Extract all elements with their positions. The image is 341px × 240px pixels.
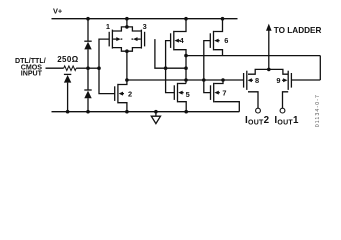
junction bus at Q7 drain	[221, 78, 225, 82]
wire drain lead of Q6	[214, 19, 222, 32]
wire drain lead of Q7	[214, 80, 223, 84]
diode D3 cathode bar	[64, 73, 71, 75]
wire source lead of Q8	[248, 92, 258, 108]
transistor Q8	[244, 71, 253, 90]
wire drain lead of Q4	[174, 19, 186, 32]
wire input lead	[46, 67, 64, 69]
ground	[151, 112, 160, 124]
wire source lead of Q6	[214, 50, 222, 56]
transistor Q6	[210, 31, 219, 51]
svg-text:4: 4	[180, 36, 185, 45]
svg-text:6: 6	[224, 36, 228, 45]
wire Q9 gate lead to right loop	[291, 79, 320, 81]
svg-text:01134-0-7: 01134-0-7	[315, 94, 321, 127]
junction input node at diode column	[86, 66, 90, 70]
diode D2 cathode bar	[84, 89, 91, 91]
svg-text:IOUT2: IOUT2	[245, 115, 270, 127]
wire ground rail	[52, 111, 240, 113]
wire drain lead of Q5	[178, 83, 186, 85]
wire D3 anode to ground rail	[67, 83, 69, 112]
transistor Q2	[115, 84, 124, 104]
transistor Q4	[171, 31, 180, 51]
wire Q1 bottom lead	[113, 48, 127, 52]
svg-text:2: 2	[128, 89, 132, 98]
junction ground rail at ground symbol	[154, 110, 158, 114]
wire resistor to input node	[76, 67, 88, 69]
wire center stub to V+ rail	[126, 19, 128, 27]
diode D2	[84, 91, 91, 99]
wire D1 anode to input node	[87, 49, 89, 68]
diode D3	[64, 75, 71, 83]
wire Q1 top lead	[113, 27, 127, 31]
wire V+ rail to D1	[87, 19, 89, 42]
wire Q3 bottom lead	[127, 48, 141, 52]
wire center stub down to bus	[126, 51, 128, 80]
svg-text:5: 5	[186, 90, 190, 99]
transistor Q3	[132, 30, 145, 49]
wire source lead of Q2	[119, 103, 127, 112]
svg-text:V+: V+	[53, 7, 63, 16]
wire V+ rail	[52, 18, 238, 20]
junction on V+ rail above Q6	[221, 17, 225, 21]
junction H3 at Q4/Q5 gate column	[164, 66, 168, 70]
junction on V+ rail at diode column	[86, 17, 90, 21]
wire Q4/Q5 gate vertical	[166, 41, 175, 93]
wire drain lead of Q2	[119, 80, 127, 85]
junction bus left end	[125, 78, 129, 82]
wire Q6/Q7 gate vertical	[204, 41, 211, 93]
junction on V+ rail above Q1/Q3	[125, 17, 129, 21]
wire inverted-input bus	[127, 79, 244, 81]
wire source lead of Q7	[214, 102, 239, 112]
svg-text:IOUT1: IOUT1	[274, 115, 299, 127]
wire source lead of Q9	[283, 92, 289, 108]
resistor R1 250 ohm	[64, 66, 76, 71]
junction ground rail at D2	[86, 110, 90, 114]
wire to-ladder vertical	[268, 30, 270, 69]
junction on gate bus	[97, 66, 101, 70]
junction bus at Q4/Q5 column	[184, 78, 188, 82]
junction node-A column on H4	[184, 54, 188, 58]
wire node-A line	[186, 55, 320, 57]
diode D1 cathode bar	[84, 40, 91, 42]
junction switch common node	[267, 68, 271, 72]
wire drain lead of Q8	[248, 69, 269, 74]
svg-text:8: 8	[255, 76, 259, 85]
transistor Q5	[174, 83, 183, 103]
svg-text:TO LADDER: TO LADDER	[274, 26, 322, 35]
transistor Q9	[282, 71, 291, 90]
terminal IOUT1 circle	[280, 108, 285, 113]
junction H3 right end	[184, 66, 188, 70]
svg-text:1: 1	[106, 22, 110, 31]
junction ground rail at Q5 source	[184, 110, 188, 114]
svg-text:INPUT: INPUT	[21, 70, 43, 78]
wire D2 anode to ground rail	[87, 98, 89, 112]
transistor Q1	[109, 30, 122, 49]
junction ground rail at Q2 source	[125, 110, 129, 114]
svg-text:9: 9	[276, 76, 280, 85]
wire source lead of Q4	[174, 50, 186, 84]
wire Q3 gate to H3 bus	[155, 39, 186, 68]
svg-text:250Ω: 250Ω	[57, 55, 79, 64]
diode D1	[84, 42, 91, 50]
wire drain lead of Q9	[269, 69, 288, 74]
svg-text:7: 7	[222, 88, 226, 97]
wire right loop vertical	[319, 56, 321, 80]
terminal IOUT2 circle	[256, 108, 261, 113]
junction ground rail at D3	[66, 110, 70, 114]
wire input gate bus	[99, 39, 115, 94]
junction Q1/Q3 top center	[125, 25, 129, 29]
junction Q1/Q3 bottom center	[125, 49, 129, 53]
wire input node to gate bus	[88, 67, 99, 69]
transistor Q7	[211, 83, 220, 103]
svg-text:3: 3	[143, 22, 147, 31]
wire source lead of Q5	[178, 102, 186, 112]
arrowhead to ladder	[266, 24, 272, 31]
wire Q3 top lead	[127, 27, 141, 31]
junction bus at Q6/Q7 gate column	[202, 78, 206, 82]
wire input node to D2	[87, 68, 89, 90]
junction on V+ rail above Q4	[184, 17, 188, 21]
